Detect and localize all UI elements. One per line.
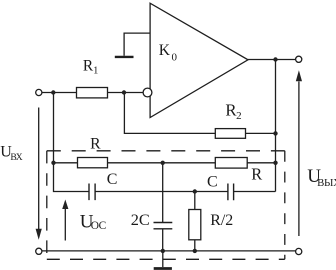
svg-text:ВХ: ВХ: [10, 152, 22, 163]
svg-text:0: 0: [172, 52, 178, 64]
svg-text:R: R: [251, 165, 262, 184]
svg-text:ОС: ОС: [91, 220, 106, 232]
svg-text:1: 1: [93, 66, 98, 77]
svg-text:R/2: R/2: [210, 212, 233, 229]
svg-text:2C: 2C: [131, 210, 150, 229]
svg-text:R: R: [90, 135, 101, 152]
svg-text:ВЫХ: ВЫХ: [317, 177, 336, 189]
svg-text:K: K: [159, 42, 171, 59]
svg-text:2: 2: [236, 110, 242, 122]
svg-text:C: C: [207, 174, 218, 191]
svg-text:C: C: [107, 171, 118, 188]
